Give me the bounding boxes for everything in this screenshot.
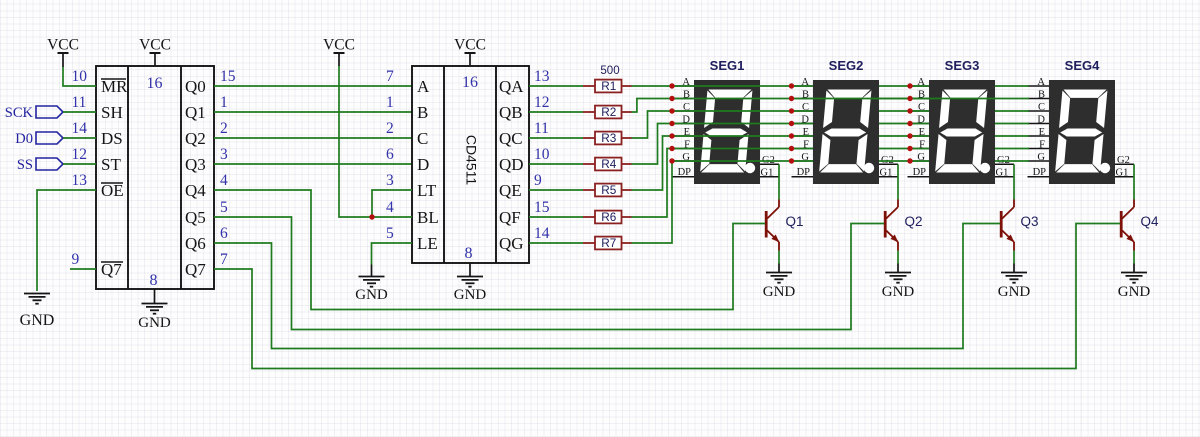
wire U2 QF to R6 <box>529 216 583 218</box>
junctions at SEG3 segment pins <box>907 83 912 163</box>
U2 ground pin number 8 <box>465 245 473 262</box>
power VCC for U1 pin 16 <box>139 37 171 67</box>
svg-text:SEG3: SEG3 <box>945 58 980 73</box>
wire stub U1 Q7S pin 9 <box>70 268 96 270</box>
resistor R7 <box>583 236 632 250</box>
svg-text:10: 10 <box>534 146 550 163</box>
U1 pin number 1 <box>220 94 228 111</box>
svg-text:Q2: Q2 <box>905 214 923 229</box>
svg-text:8: 8 <box>150 272 158 289</box>
U2 pin label QE <box>499 181 522 200</box>
resistor R2 <box>583 105 632 119</box>
svg-text:QC: QC <box>499 129 523 148</box>
svg-text:4: 4 <box>386 199 394 216</box>
U2 pin number 1 <box>386 94 394 111</box>
wire SCK to U1 <box>63 111 96 113</box>
value label 500 <box>600 65 619 77</box>
U1 pin label Q6 <box>185 234 206 253</box>
U1 pin label DS <box>101 129 123 148</box>
svg-text:9: 9 <box>534 172 542 189</box>
svg-text:D: D <box>417 155 429 174</box>
net flag D0 <box>15 131 63 147</box>
wire U2 LE pin 5 to ground <box>372 243 413 265</box>
svg-text:15: 15 <box>534 199 550 216</box>
svg-text:Q3: Q3 <box>1021 214 1039 229</box>
svg-text:Q4: Q4 <box>1141 214 1160 229</box>
svg-text:Q5: Q5 <box>185 208 206 227</box>
net flag SCK <box>5 105 63 121</box>
svg-text:GND: GND <box>138 315 171 331</box>
svg-text:Q4: Q4 <box>185 181 206 200</box>
svg-text:OE: OE <box>101 181 124 200</box>
svg-text:SCK: SCK <box>5 105 34 121</box>
ground for U2 pin 8 <box>454 263 487 303</box>
wire SEG2 common G2 G1 to Q2 collector <box>897 164 899 199</box>
wire U1 Q7 to Q4 base <box>214 224 1120 369</box>
svg-text:3: 3 <box>386 172 394 189</box>
wire segment bus C <box>632 111 1030 138</box>
svg-text:13: 13 <box>72 172 88 189</box>
resistor R3 <box>583 131 632 145</box>
wire U2 LT pin 3 to BL net <box>372 190 412 217</box>
power VCC net for U1 MR <box>47 37 79 68</box>
power VCC for CD4511 pin 16 <box>454 37 486 66</box>
svg-text:A: A <box>1037 77 1045 88</box>
wire U1 Q0 to CD4511 A <box>214 85 412 87</box>
svg-text:11: 11 <box>72 94 87 111</box>
U1 pin number 12 <box>72 146 88 163</box>
svg-text:GND: GND <box>20 312 55 329</box>
transistor Q1 <box>766 200 803 251</box>
transistor Q3 <box>1001 200 1038 251</box>
svg-text:2: 2 <box>220 120 228 137</box>
wire segment bus D <box>632 124 1030 165</box>
svg-text:Q7: Q7 <box>185 260 206 279</box>
svg-text:VCC: VCC <box>454 37 486 54</box>
svg-text:C: C <box>417 129 428 148</box>
wire U1 Q1 to CD4511 B <box>214 111 412 113</box>
svg-text:QG: QG <box>499 234 524 253</box>
U2 pin label B <box>417 103 428 122</box>
svg-text:14: 14 <box>72 120 88 137</box>
svg-text:GND: GND <box>998 284 1031 300</box>
svg-text:CD4511: CD4511 <box>463 135 479 186</box>
svg-text:DP: DP <box>1033 167 1047 178</box>
svg-text:GND: GND <box>1118 284 1151 300</box>
svg-text:SEG2: SEG2 <box>829 58 864 73</box>
wire segment bus F <box>632 149 1030 218</box>
svg-text:5: 5 <box>220 199 228 216</box>
U2 pin label C <box>417 129 428 148</box>
svg-text:A: A <box>417 77 430 96</box>
wire Q4 emitter to ground <box>1133 251 1135 273</box>
junctions at SEG2 segment pins <box>789 83 794 163</box>
wire segment bus B over SEG2 SEG3 <box>813 98 995 100</box>
U2 pin label QD <box>499 155 524 174</box>
svg-text:R3: R3 <box>601 131 617 145</box>
7-segment display SEG1 body <box>694 80 760 184</box>
wire segment bus B <box>632 99 1030 113</box>
U2 pin number 14 <box>534 225 550 242</box>
U2 pin number 7 <box>386 68 394 85</box>
svg-text:4: 4 <box>220 172 228 189</box>
svg-text:6: 6 <box>386 146 394 163</box>
U1 pin label Q5 <box>185 208 206 227</box>
wire U1 OE pin 13 to ground <box>37 190 96 291</box>
U2 pin number 6 <box>386 146 394 163</box>
svg-text:7: 7 <box>220 251 228 268</box>
svg-text:QD: QD <box>499 155 524 174</box>
svg-text:G1: G1 <box>761 167 774 178</box>
resistor R4 <box>583 157 632 171</box>
wire U1 Q5 to Q2 base <box>214 217 884 330</box>
U1 pin label OE <box>101 181 124 200</box>
wire U2 QD to R4 <box>529 163 583 165</box>
U1 pin number 4 <box>220 172 228 189</box>
svg-text:G1: G1 <box>1116 167 1129 178</box>
svg-text:R1: R1 <box>601 79 616 93</box>
ground for U1 OE <box>20 294 55 330</box>
U2 pin number 4 <box>386 199 394 216</box>
U2 pin label D <box>417 155 429 174</box>
wire Q2 emitter to ground <box>897 251 899 273</box>
svg-text:1: 1 <box>386 94 394 111</box>
SEG2 pin stubs and labels <box>792 58 899 178</box>
svg-text:G1: G1 <box>996 167 1009 178</box>
wire U2 QG to R7 <box>529 242 583 244</box>
SEG3 pin stubs and labels <box>908 58 1015 178</box>
net flag SS <box>17 157 63 173</box>
wire Q3 emitter to ground <box>1013 251 1015 273</box>
wire VCC to U2 BL pin 4 <box>339 66 412 217</box>
svg-text:F: F <box>1039 140 1045 151</box>
transistor Q2 <box>885 200 922 251</box>
U1 pin number 6 <box>220 225 228 242</box>
U1 pin label Q2 <box>185 129 206 148</box>
U1 pin number 15 <box>220 68 236 85</box>
U2 label CD4511 <box>463 135 479 186</box>
resistor R1 <box>583 79 632 93</box>
U1 pin number 13 <box>72 172 88 189</box>
svg-text:QE: QE <box>499 181 522 200</box>
U2 pin label QF <box>499 208 521 227</box>
U2 pin label LE <box>417 234 438 253</box>
U1 power pin number 16 <box>147 75 163 92</box>
svg-text:QB: QB <box>499 103 523 122</box>
svg-text:E: E <box>1039 127 1045 138</box>
U1 pin number 7 <box>220 251 228 268</box>
U2 pin label A <box>417 77 430 96</box>
svg-text:16: 16 <box>147 75 163 92</box>
U1 pin label ST <box>101 155 121 174</box>
svg-text:R6: R6 <box>601 210 617 224</box>
ground for U2 LE <box>355 265 388 304</box>
U2 pin label BL <box>417 208 439 227</box>
svg-text:Q3: Q3 <box>185 155 206 174</box>
svg-text:12: 12 <box>534 94 550 111</box>
IC U1 shift register body <box>96 66 214 289</box>
svg-text:500: 500 <box>600 65 619 77</box>
junctions at SEG1 segment pins <box>669 83 674 163</box>
U1 pin label Q4 <box>185 181 206 200</box>
wire U2 QE to R5 <box>529 189 583 191</box>
U1 pin number 2 <box>220 120 228 137</box>
U2 pin number 2 <box>386 120 394 137</box>
svg-text:11: 11 <box>534 120 549 137</box>
svg-text:VCC: VCC <box>323 37 355 54</box>
U1 pin label Q7 serial out <box>101 260 123 279</box>
wire segment bus A <box>632 85 1030 87</box>
svg-text:DS: DS <box>101 129 123 148</box>
svg-text:6: 6 <box>220 225 228 242</box>
wire U1 Q2 to CD4511 C <box>214 137 412 139</box>
svg-text:DP: DP <box>678 167 692 178</box>
ground for U1 pin 8 <box>138 289 171 331</box>
svg-text:LT: LT <box>417 181 437 200</box>
U1 pin number 3 <box>220 146 228 163</box>
7-segment display SEG3 body <box>929 80 995 184</box>
power VCC for CD4511 LT BL <box>323 37 355 67</box>
U1 pin number 9 <box>72 251 80 268</box>
U1 pin label Q0 <box>185 77 206 96</box>
7-segment display SEG2 body <box>813 80 879 184</box>
svg-text:QF: QF <box>499 208 521 227</box>
svg-text:9: 9 <box>72 251 80 268</box>
svg-text:3: 3 <box>220 146 228 163</box>
svg-text:G1: G1 <box>880 167 893 178</box>
svg-text:G: G <box>1037 152 1045 163</box>
wire SEG3 common G2 G1 to Q3 collector <box>1013 164 1015 199</box>
resistor R5 <box>583 183 632 197</box>
svg-text:C: C <box>1038 102 1045 113</box>
U1 pin label Q1 <box>185 103 206 122</box>
wire segment bus G <box>632 161 1030 243</box>
resistor R6 <box>583 210 632 224</box>
svg-text:G2: G2 <box>1117 155 1130 166</box>
wire U2 QA to R1 <box>529 85 583 87</box>
U2 pin number 5 <box>386 225 394 242</box>
U2 pin number 15 <box>534 199 550 216</box>
wire Q1 emitter to ground <box>778 251 780 273</box>
svg-text:QA: QA <box>499 77 524 96</box>
svg-text:SS: SS <box>17 157 33 173</box>
svg-text:1: 1 <box>220 94 228 111</box>
ground for Q1 <box>763 273 796 301</box>
svg-text:VCC: VCC <box>47 37 79 54</box>
svg-text:Q7: Q7 <box>101 260 122 279</box>
junction at BL net <box>369 214 374 219</box>
7-segment display SEG4 body <box>1049 80 1115 184</box>
svg-text:SH: SH <box>101 103 123 122</box>
wire U1 Q6 to Q3 base <box>214 224 1000 349</box>
svg-text:B: B <box>417 103 428 122</box>
ground for Q4 <box>1118 273 1151 301</box>
svg-text:Q2: Q2 <box>185 129 206 148</box>
U1 pin number 5 <box>220 199 228 216</box>
ground for Q2 <box>882 273 915 301</box>
IC U2 CD4511 body <box>412 66 529 263</box>
U2 pin label QC <box>499 129 523 148</box>
svg-text:DP: DP <box>913 167 927 178</box>
wire D0 to U1 <box>63 137 96 139</box>
svg-text:B: B <box>1038 90 1045 101</box>
svg-text:SEG1: SEG1 <box>710 58 745 73</box>
U1 pin label SH <box>101 103 123 122</box>
U2 pin number 13 <box>534 68 550 85</box>
wire U2 QB to R2 <box>529 111 583 113</box>
svg-text:10: 10 <box>72 68 88 85</box>
U2 pin number 3 <box>386 172 394 189</box>
svg-text:Q6: Q6 <box>185 234 206 253</box>
U2 power pin number 16 <box>462 74 478 91</box>
svg-text:R5: R5 <box>601 183 617 197</box>
transistor Q4 <box>1121 200 1159 251</box>
U2 pin number 10 <box>534 146 550 163</box>
U1 pin label Q3 <box>185 155 206 174</box>
U2 pin number 9 <box>534 172 542 189</box>
svg-text:SEG4: SEG4 <box>1065 58 1100 73</box>
wire U1 Q3 to CD4511 D <box>214 163 412 165</box>
svg-text:DP: DP <box>797 167 811 178</box>
wire U2 QC to R3 <box>529 137 583 139</box>
U2 pin label QB <box>499 103 523 122</box>
svg-text:15: 15 <box>220 68 236 85</box>
svg-text:GND: GND <box>882 284 915 300</box>
wire SEG1 common G2 G1 to Q1 collector <box>778 164 780 199</box>
U1 pin label Q7 <box>185 260 206 279</box>
svg-text:2: 2 <box>386 120 394 137</box>
svg-text:R7: R7 <box>601 236 616 250</box>
svg-text:R4: R4 <box>601 157 617 171</box>
U2 pin label LT <box>417 181 437 200</box>
U1 pin number 10 <box>72 68 88 85</box>
svg-text:GND: GND <box>454 287 487 303</box>
svg-text:Q1: Q1 <box>786 214 804 229</box>
svg-text:MR: MR <box>101 77 128 96</box>
svg-text:14: 14 <box>534 225 550 242</box>
svg-text:Q1: Q1 <box>185 103 206 122</box>
U1 ground pin number 8 <box>150 272 158 289</box>
U2 pin label QA <box>499 77 524 96</box>
svg-text:LE: LE <box>417 234 438 253</box>
SEG1 pin stubs and labels <box>673 58 780 178</box>
svg-text:D0: D0 <box>15 131 33 147</box>
svg-text:12: 12 <box>72 146 88 163</box>
svg-text:GND: GND <box>355 287 388 303</box>
U2 pin label QG <box>499 234 524 253</box>
U2 pin number 12 <box>534 94 550 111</box>
U1 pin number 14 <box>72 120 88 137</box>
U1 pin label MR <box>101 77 128 96</box>
svg-text:5: 5 <box>386 225 394 242</box>
svg-text:D: D <box>1037 115 1045 126</box>
U2 pin number 11 <box>534 120 549 137</box>
svg-text:R2: R2 <box>601 105 616 119</box>
U1 pin number 11 <box>72 94 87 111</box>
svg-text:8: 8 <box>465 245 473 262</box>
wire SEG4 common G2 G1 to Q4 collector <box>1133 164 1135 199</box>
svg-text:ST: ST <box>101 155 121 174</box>
wire segment bus E <box>632 136 1030 190</box>
wire U1 Q4 to Q1 base <box>214 190 765 310</box>
svg-text:16: 16 <box>462 74 478 91</box>
svg-text:13: 13 <box>534 68 550 85</box>
svg-text:GND: GND <box>763 284 796 300</box>
svg-text:7: 7 <box>386 68 394 85</box>
SEG4 pin stubs and labels <box>1028 58 1135 178</box>
wire SS to U1 <box>63 163 96 165</box>
wire VCC to U1 MR pin 10 <box>63 67 96 86</box>
svg-text:Q0: Q0 <box>185 77 206 96</box>
ground for Q3 <box>998 273 1031 301</box>
svg-text:BL: BL <box>417 208 439 227</box>
svg-text:VCC: VCC <box>139 37 171 54</box>
